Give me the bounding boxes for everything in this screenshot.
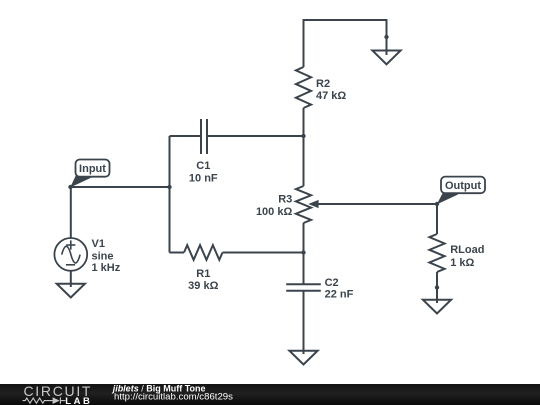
svg-text:R2: R2 (316, 78, 330, 90)
svg-text:sine: sine (92, 251, 114, 263)
svg-text:1 kHz: 1 kHz (92, 262, 121, 274)
svg-text:R1: R1 (196, 268, 210, 280)
svg-text:Output: Output (445, 180, 481, 192)
svg-text:22 nF: 22 nF (325, 289, 354, 301)
svg-text:47 kΩ: 47 kΩ (316, 90, 346, 102)
svg-text:RLoad: RLoad (450, 244, 484, 256)
svg-text:1 kΩ: 1 kΩ (450, 257, 474, 269)
svg-text:39 kΩ: 39 kΩ (188, 280, 218, 292)
svg-text:100 kΩ: 100 kΩ (256, 206, 293, 218)
svg-text:C1: C1 (196, 160, 210, 172)
svg-text:http://circuitlab.com/c86t29s: http://circuitlab.com/c86t29s (114, 392, 233, 403)
svg-text:Input: Input (79, 163, 106, 175)
svg-text:LAB: LAB (65, 396, 92, 405)
svg-text:10 nF: 10 nF (189, 173, 218, 185)
svg-text:V1: V1 (92, 238, 105, 250)
svg-text:C2: C2 (325, 277, 339, 289)
svg-text:R3: R3 (278, 193, 292, 205)
